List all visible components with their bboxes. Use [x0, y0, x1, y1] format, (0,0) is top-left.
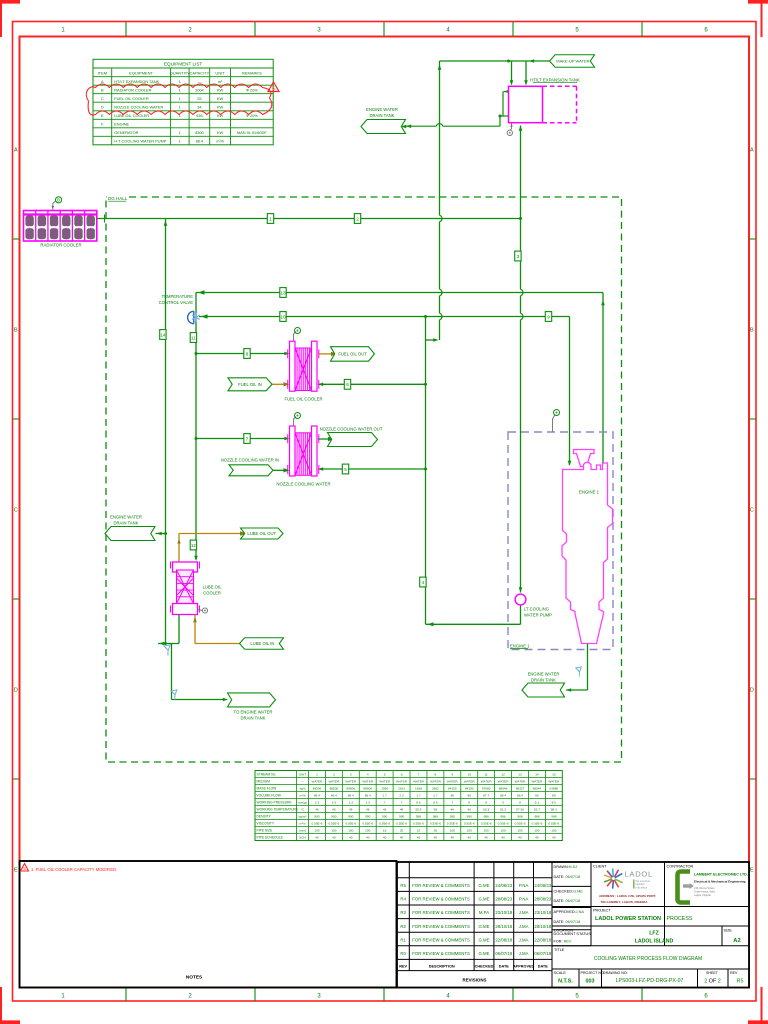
- svg-text:FOR REVIEW & COMMENTS: FOR REVIEW & COMMENTS: [412, 924, 470, 929]
- svg-text:R4: R4: [400, 897, 406, 902]
- line tag 8: [244, 349, 250, 359]
- node drain branch on return riser: [164, 532, 167, 535]
- wire make-up water header: [440, 61, 550, 82]
- svg-text:ENGINE WATER: ENGINE WATER: [528, 671, 560, 676]
- arrow into engine water drain tank flag (top): [406, 124, 411, 128]
- svg-text:51.3: 51.3: [500, 808, 506, 812]
- arrow on make-up header: [529, 59, 534, 63]
- zone row ticks right: [749, 239, 756, 779]
- svg-text:NOTES: NOTES: [186, 975, 203, 981]
- svg-text:100: 100: [551, 829, 556, 833]
- svg-text:D: D: [750, 687, 754, 693]
- svg-text:CONTRACTOR: CONTRACTOR: [667, 864, 694, 868]
- arrow into LT pump suction: [519, 587, 523, 592]
- wire engine bottom drain: [566, 644, 588, 690]
- client cell: [593, 864, 607, 868]
- svg-text:2.3: 2.3: [399, 794, 404, 798]
- svg-text:988: 988: [551, 815, 556, 819]
- svg-text:A: A: [101, 79, 104, 84]
- svg-text:7: 7: [418, 773, 420, 777]
- svg-text:ENGINE 1: ENGINE 1: [510, 643, 530, 648]
- wire hop tank riser over engine outlet header: [519, 289, 522, 296]
- wire make-up water downcomer: [439, 61, 441, 340]
- arrow make-up tie-in: [433, 338, 438, 342]
- line tag 2: [354, 214, 360, 224]
- svg-text:LUBE OIL OUT: LUBE OIL OUT: [247, 531, 276, 536]
- svg-text:8: 8: [519, 801, 521, 805]
- svg-text:LADOL: LADOL: [625, 870, 653, 879]
- svg-text:8: 8: [435, 773, 437, 777]
- svg-text:NOZZLE COOLING WATER OUT: NOZZLE COOLING WATER OUT: [320, 426, 383, 431]
- equipment list table: [93, 59, 273, 145]
- wire cooler downcomer: [195, 293, 197, 560]
- arrow at pump discharge corner: [428, 622, 434, 626]
- revision table rows: [400, 883, 551, 956]
- wire engine inlet header (valve line): [199, 317, 570, 466]
- svg-text:R0: R0: [400, 951, 406, 956]
- svg-text:P.NA: P.NA: [519, 897, 529, 902]
- svg-text:46: 46: [383, 808, 387, 812]
- sheet corner trim mark top-left: [0, 0, 20, 37]
- svg-text:C: C: [14, 507, 18, 513]
- svg-text:06/07/18: 06/07/18: [534, 951, 551, 956]
- svg-text:24/08/23: 24/08/23: [534, 883, 551, 888]
- flag NOZZLE COOLING WATER IN: [229, 465, 273, 476]
- arrow at cooler downcomer corner: [198, 290, 205, 295]
- svg-text:DATE: DATE: [499, 965, 510, 969]
- wire hop make-up downcomer over radiator header: [438, 215, 441, 222]
- svg-text:kg/m³: kg/m³: [299, 815, 307, 819]
- svg-text:E: E: [14, 867, 18, 873]
- svg-text:WATER: WATER: [548, 780, 560, 784]
- svg-text:m³: m³: [218, 79, 223, 84]
- svg-text:20: 20: [434, 829, 438, 833]
- svg-text:2.3: 2.3: [366, 801, 371, 805]
- DG HALL boundary (dashed): [106, 197, 622, 762]
- svg-text:FOR REVIEW & COMMENTS: FOR REVIEW & COMMENTS: [412, 897, 470, 902]
- svg-text:988: 988: [433, 815, 438, 819]
- svg-text:NOZZLE COOLING WATER IN: NOZZLE COOLING WATER IN: [221, 457, 279, 462]
- svg-text:0.55E-6: 0.55E-6: [430, 822, 441, 826]
- svg-text:06/07/18: 06/07/18: [495, 951, 512, 956]
- svg-text:EQUIPMENT LIST: EQUIPMENT LIST: [164, 62, 202, 67]
- LADOL logo text: [625, 870, 653, 890]
- svg-text:2: 2: [333, 773, 335, 777]
- engine unit boundary ENGINE 1 (violet dashed): [508, 432, 613, 650]
- svg-text:9: 9: [547, 314, 550, 319]
- arrow lube oil out: [240, 531, 246, 535]
- svg-text:86.4: 86.4: [196, 139, 204, 144]
- svg-text:VISCOSITY: VISCOSITY: [257, 822, 275, 826]
- svg-text:14: 14: [160, 332, 166, 337]
- revision table header: [399, 965, 548, 969]
- sheet corner trim mark bottom-left: [0, 987, 20, 1024]
- sheet corner trim mark top-right: [748, 0, 768, 37]
- svg-text:40: 40: [518, 836, 522, 840]
- svg-text:4: 4: [422, 580, 425, 585]
- svg-text:68327: 68327: [516, 787, 525, 791]
- svg-text:86.4: 86.4: [500, 794, 506, 798]
- svg-text:UNIT: UNIT: [299, 773, 306, 777]
- svg-text:3: 3: [350, 773, 352, 777]
- svg-text:100: 100: [517, 829, 522, 833]
- svg-text:FOR REVIEW & COMMENTS: FOR REVIEW & COMMENTS: [412, 951, 470, 956]
- label ENGINE WATER DRAIN TANK (bottom): [528, 671, 560, 682]
- svg-text:ITEM: ITEM: [98, 70, 108, 75]
- svg-text:FUEL OIL COOLER: FUEL OIL COOLER: [284, 396, 322, 401]
- svg-text:R5: R5: [400, 883, 406, 888]
- svg-text:24b Olumo Street,: 24b Olumo Street,: [694, 886, 715, 890]
- svg-text:990: 990: [331, 815, 336, 819]
- arrow into nozzle cooler right: [318, 467, 323, 471]
- svg-text:HT/LT EXPANSION TANK: HT/LT EXPANSION TANK: [114, 79, 159, 84]
- svg-text:WATER: WATER: [481, 780, 493, 784]
- svg-text:DRAWING NO:: DRAWING NO:: [603, 971, 628, 975]
- svg-text:990: 990: [450, 815, 455, 819]
- svg-text:COOLING WATER PROCESS FLOW DIA: COOLING WATER PROCESS FLOW DIAGRAM: [594, 956, 702, 962]
- svg-text:LADOL POWER STATION: LADOL POWER STATION: [595, 916, 661, 922]
- svg-text:1: 1: [179, 139, 181, 144]
- title block info column: [552, 862, 749, 988]
- svg-text:LFZ: LFZ: [649, 930, 659, 936]
- svg-text:990: 990: [348, 815, 353, 819]
- engine exhaust funnel: [574, 450, 595, 467]
- svg-text:23/10/18: 23/10/18: [534, 910, 551, 915]
- svg-text:1.7: 1.7: [416, 794, 421, 798]
- svg-text:40: 40: [332, 836, 336, 840]
- svg-text:40: 40: [552, 836, 556, 840]
- svg-text:40: 40: [417, 836, 421, 840]
- svg-text:40: 40: [434, 836, 438, 840]
- drawing no cell: [603, 971, 683, 984]
- svg-text:87.7: 87.7: [483, 794, 489, 798]
- svg-text:LUBE OIL COOLER: LUBE OIL COOLER: [114, 113, 149, 118]
- svg-text:53.7: 53.7: [534, 808, 540, 812]
- zone row ticks left: [13, 239, 20, 779]
- svg-text:--: --: [301, 780, 303, 784]
- svg-text:10: 10: [280, 314, 286, 319]
- nozzle cooling water cooler D (heat exchanger): [288, 426, 319, 476]
- line tag 11: [190, 333, 196, 343]
- wire lube oil inlet (oil): [195, 615, 240, 644]
- svg-text:SCH: SCH: [299, 836, 306, 840]
- svg-text:TIN-CAN/BEY, LAGOS, NIGERIA: TIN-CAN/BEY, LAGOS, NIGERIA: [601, 900, 649, 904]
- wire expansion tank overflow to drain: [405, 92, 509, 127]
- svg-text:86.4: 86.4: [348, 794, 354, 798]
- svg-text:RADIATOR COOLER: RADIATOR COOLER: [40, 243, 81, 248]
- svg-text:KW: KW: [217, 130, 224, 135]
- svg-text:40: 40: [501, 836, 505, 840]
- arrow up make-up downcomer: [438, 65, 442, 70]
- label TO ENGINE WATER DRAIN TANK: [234, 709, 273, 720]
- svg-text:28/10/18: 28/10/18: [534, 924, 551, 929]
- svg-text:0.55E-6: 0.55E-6: [464, 822, 475, 826]
- svg-text:46: 46: [451, 808, 455, 812]
- arrow water into lube cooler top: [194, 556, 198, 561]
- revision triangle marker A: [268, 82, 279, 92]
- engine MAN 9L51/60DF silhouette: [562, 463, 613, 644]
- svg-text:PROJECT NO:: PROJECT NO:: [581, 971, 605, 975]
- svg-text:COOLER: COOLER: [203, 591, 221, 596]
- svg-text:1. FUEL OIL COOLER CAPACITY: 1. FUEL OIL COOLER CAPACITY MODIFIED.: [31, 867, 117, 872]
- svg-text:SIZE: SIZE: [724, 928, 733, 932]
- svg-text:B: B: [101, 88, 104, 93]
- svg-text:WATER: WATER: [413, 780, 425, 784]
- svg-text:0.55E-6: 0.55E-6: [396, 822, 407, 826]
- svg-text:KW: KW: [217, 88, 224, 93]
- svg-text:100: 100: [314, 829, 319, 833]
- svg-text:ENGINE 1: ENGINE 1: [579, 490, 600, 495]
- svg-text:0.55E-6: 0.55E-6: [362, 822, 373, 826]
- wire hop tank riser over engine inlet header: [519, 313, 522, 320]
- svg-text:WATER: WATER: [312, 780, 324, 784]
- svg-text:LT COOLING: LT COOLING: [524, 606, 549, 611]
- svg-text:CONTROL VALVE: CONTROL VALVE: [159, 300, 194, 305]
- arrow down into engine inlet: [568, 461, 572, 466]
- LT cooling water pump label: [524, 606, 552, 617]
- svg-text:24/08/23: 24/08/23: [495, 883, 512, 888]
- svg-text:12: 12: [501, 773, 505, 777]
- svg-text:B: B: [57, 198, 60, 203]
- svg-text:7: 7: [384, 801, 386, 805]
- svg-text:ADDRESS : LADOL FZE, APAPA POR: ADDRESS : LADOL FZE, APAPA PORT,: [599, 894, 656, 898]
- engine unit instrument bubble: [553, 410, 560, 432]
- svg-text:8: 8: [468, 801, 470, 805]
- client address text: [599, 894, 656, 904]
- svg-text:15: 15: [552, 773, 556, 777]
- svg-text:0.55E-6: 0.55E-6: [515, 822, 526, 826]
- svg-text:CAPACITY: CAPACITY: [190, 70, 210, 75]
- arrow fuel oil out: [331, 352, 337, 356]
- svg-text:2: 2: [356, 216, 359, 221]
- arrow into radiator header: [164, 221, 168, 226]
- node return riser bottom: [164, 642, 167, 645]
- location cell: [554, 928, 674, 944]
- svg-text:Electrical & Mechanical Engine: Electrical & Mechanical Engineering: [694, 880, 746, 884]
- svg-text:QUANTITY: QUANTITY: [170, 70, 191, 75]
- Lambert Electromec logo: [678, 872, 695, 903]
- svg-text:m²/s: m²/s: [299, 822, 305, 826]
- svg-text:KW: KW: [217, 96, 224, 101]
- flag FUEL OIL OUT: [331, 347, 375, 362]
- svg-text:9: 9: [451, 773, 453, 777]
- svg-text:A: A: [750, 147, 754, 153]
- arrow make-up into tank stub 2: [524, 80, 528, 85]
- svg-text:ENGINE WATER: ENGINE WATER: [366, 107, 398, 112]
- arrow into fuel cooler right: [318, 383, 323, 387]
- svg-text:TEMPERATURE: TEMPERATURE: [162, 294, 194, 299]
- svg-text:3: 3: [517, 254, 520, 259]
- svg-text:28/10/18: 28/10/18: [495, 924, 512, 929]
- zone numbers bottom 1-6: [61, 994, 708, 1000]
- wire nozzle cooling water outlet: [318, 438, 328, 440]
- svg-text:86.4: 86.4: [365, 794, 371, 798]
- svg-text:B: B: [14, 327, 18, 333]
- line tag 4: [420, 577, 426, 587]
- radiator instrument bubble B: [52, 197, 62, 210]
- svg-text:NOZZLE COOLING WATER: NOZZLE COOLING WATER: [276, 482, 330, 487]
- wire LT pump discharge riser: [426, 317, 521, 625]
- line tag 1: [267, 214, 273, 224]
- svg-text:46: 46: [468, 808, 472, 812]
- svg-text:100: 100: [348, 829, 353, 833]
- arrow into drain flag (mid): [157, 532, 162, 536]
- svg-text:2 OF 2: 2 OF 2: [704, 979, 721, 985]
- wire lube cooler water outlet to riser: [158, 615, 179, 644]
- flag ENGINE WATER DRAIN TANK (mid): [105, 527, 155, 541]
- svg-text:46: 46: [400, 808, 404, 812]
- svg-text:55.5: 55.5: [415, 808, 421, 812]
- flag MAKE-UP WATER: [550, 55, 595, 68]
- svg-text:RADIATOR COOLER: RADIATOR COOLER: [114, 88, 151, 93]
- wire return riser to radiator: [165, 219, 167, 644]
- svg-text:7: 7: [246, 436, 249, 441]
- lube oil cooler E (plate cooler): [171, 562, 200, 615]
- wire engine outlet header (upper): [196, 293, 603, 464]
- svg-text:40: 40: [400, 836, 404, 840]
- svg-text:ENGINE: ENGINE: [114, 122, 129, 127]
- svg-text:Φ 20%: Φ 20%: [246, 88, 259, 93]
- svg-text:CHECKED: CHECKED: [475, 965, 494, 969]
- wire expansion tank riser: [520, 126, 522, 593]
- svg-text:DESCRIPTION: DESCRIPTION: [429, 965, 455, 969]
- zone column ticks top: [126, 22, 642, 37]
- revision cloud over equipment rows B-E: [86, 84, 271, 115]
- flag FUEL OIL IN: [228, 378, 272, 391]
- svg-text:DRAIN TANK: DRAIN TANK: [114, 521, 139, 526]
- tank bottom instrument bubble: [507, 124, 513, 136]
- label ENGINE WATER DRAIN TANK (mid): [110, 515, 142, 526]
- svg-text:C: C: [750, 507, 754, 513]
- svg-text:WATER: WATER: [498, 780, 510, 784]
- svg-text:988: 988: [500, 815, 505, 819]
- svg-text:PROCESS: PROCESS: [667, 916, 693, 922]
- svg-text:HT/LT EXPANSION TANK: HT/LT EXPANSION TANK: [530, 77, 580, 82]
- svg-text:88506: 88506: [363, 787, 372, 791]
- wire make-up tie-in stub: [426, 339, 437, 341]
- arrow into fuel cooler left: [284, 352, 289, 356]
- svg-text:DRAIN TANK: DRAIN TANK: [370, 113, 395, 118]
- svg-text:CHECKED:G.ME: CHECKED:G.ME: [554, 889, 584, 893]
- svg-text:003: 003: [586, 979, 595, 985]
- svg-text:1.7: 1.7: [382, 794, 387, 798]
- svg-text:80: 80: [451, 794, 455, 798]
- svg-text:1: 1: [179, 130, 181, 135]
- svg-text:R5: R5: [737, 979, 744, 985]
- svg-text:Lagos, Nigeria: Lagos, Nigeria: [694, 893, 711, 897]
- svg-text:5: 5: [384, 773, 386, 777]
- svg-text:E: E: [101, 113, 104, 118]
- open drain funnel (lube area): [164, 645, 170, 656]
- svg-text:1: 1: [316, 773, 318, 777]
- svg-text:40: 40: [451, 836, 455, 840]
- svg-text:TITLE: TITLE: [554, 948, 565, 952]
- svg-text:0.55E-6: 0.55E-6: [548, 822, 559, 826]
- svg-text:89506: 89506: [313, 787, 322, 791]
- line tag 5: [342, 464, 348, 474]
- svg-text:80: 80: [535, 794, 539, 798]
- arrow into nozzle cooler left: [284, 437, 289, 441]
- svg-text:100: 100: [331, 829, 336, 833]
- svg-text:kg/h: kg/h: [300, 787, 306, 791]
- arrow in drain flag (top): [401, 125, 406, 129]
- contractor text: [694, 873, 748, 898]
- svg-text:990: 990: [365, 815, 370, 819]
- svg-text:LADOL ISLAND: LADOL ISLAND: [635, 938, 674, 944]
- drawn / checked / approved cells: [554, 865, 592, 943]
- svg-text:M.PA: M.PA: [479, 910, 489, 915]
- line tag 9: [545, 312, 551, 322]
- LT cooling water pump: [515, 594, 526, 605]
- node make-up header junction: [507, 60, 510, 63]
- flag LUBE OIL OUT: [241, 528, 284, 539]
- svg-text:C: C: [101, 96, 104, 101]
- wire nozzle cooler water return: [318, 468, 426, 470]
- svg-text:80: 80: [468, 794, 472, 798]
- svg-text:87680: 87680: [482, 787, 491, 791]
- svg-text:FOR: REV: FOR: REV: [554, 940, 572, 944]
- svg-text:11: 11: [191, 335, 196, 340]
- svg-text:988: 988: [517, 815, 522, 819]
- svg-text:SCALE: SCALE: [554, 971, 567, 975]
- svg-text:STREAM No.: STREAM No.: [257, 773, 277, 777]
- arrow nozzle cooling water out: [328, 437, 334, 441]
- sheet cell: [704, 971, 721, 985]
- arrow up engine outlet riser: [601, 300, 605, 305]
- svg-text:DRAIN TANK: DRAIN TANK: [241, 716, 266, 721]
- svg-text:5: 5: [502, 801, 504, 805]
- svg-text:WATER: WATER: [430, 780, 442, 784]
- svg-text:46: 46: [315, 808, 319, 812]
- open drain funnel (drain line): [171, 690, 177, 700]
- svg-text:1004: 1004: [195, 88, 204, 93]
- svg-text:REV: REV: [730, 971, 738, 975]
- svg-text:EQUIPMENT: EQUIPMENT: [129, 70, 153, 75]
- svg-text:100: 100: [534, 829, 539, 833]
- svg-text:DRAIN TANK: DRAIN TANK: [531, 678, 556, 683]
- svg-text:46: 46: [349, 808, 353, 812]
- svg-text:988: 988: [484, 815, 489, 819]
- svg-text:6: 6: [401, 773, 403, 777]
- engine unit boundary label: [509, 642, 530, 649]
- svg-text:0.55E-6: 0.55E-6: [498, 822, 509, 826]
- svg-text:8.5: 8.5: [433, 801, 438, 805]
- arrow into temperature control valve: [201, 314, 208, 319]
- svg-text:WATER: WATER: [464, 780, 476, 784]
- svg-text:APPROVED:J.NA: APPROVED:J.NA: [554, 910, 585, 914]
- arrow into TO ENGINE WATER DRAIN TANK flag: [223, 698, 228, 702]
- svg-text:8.5: 8.5: [416, 801, 421, 805]
- svg-text:100: 100: [365, 829, 370, 833]
- svg-text:REVISIONS: REVISIONS: [463, 978, 487, 983]
- svg-text:G.ME: G.ME: [479, 883, 490, 888]
- svg-text:6: 6: [485, 801, 487, 805]
- line tag 7: [244, 434, 250, 444]
- svg-text:m³/h: m³/h: [299, 794, 305, 798]
- svg-text:46: 46: [332, 808, 336, 812]
- svg-text:0.55E-6: 0.55E-6: [531, 822, 542, 826]
- flag TO ENGINE WATER DRAIN TANK: [228, 693, 276, 707]
- svg-text:PROJECT: PROJECT: [593, 909, 611, 913]
- svg-text:990: 990: [399, 815, 404, 819]
- svg-text:46: 46: [366, 808, 370, 812]
- svg-text:DOCUMENT STATUS: DOCUMENT STATUS: [554, 932, 592, 936]
- svg-text:88044: 88044: [533, 787, 542, 791]
- DG HALL label: [107, 193, 128, 201]
- svg-text:ENGINE WATER: ENGINE WATER: [110, 515, 142, 520]
- svg-text:100: 100: [484, 829, 489, 833]
- svg-text:22/08/18: 22/08/18: [495, 937, 512, 942]
